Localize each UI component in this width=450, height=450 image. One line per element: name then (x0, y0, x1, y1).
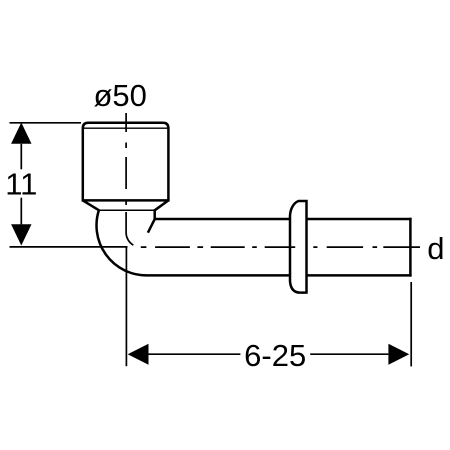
bend right side short vertical (153, 209, 156, 219)
pipe bottom line (left of flange) (146, 274, 290, 277)
pipe top line (right of flange) (307, 218, 412, 221)
bend inner corner diagonal (148, 219, 155, 233)
dimension line 6-25 left segment (149, 353, 241, 355)
horizontal centerline left part (dash-dot) (141, 246, 295, 248)
flange escutcheon profile (290, 200, 307, 294)
horizontal centerline right part (dash-dot) (313, 246, 420, 248)
socket bottom edge (82, 199, 170, 202)
dimension line 6-25 right segment (310, 353, 388, 355)
dimension line 11 upper segment (20, 144, 22, 170)
extension line top (for dim 11) (10, 122, 82, 124)
pipe top line (left of flange) (155, 218, 291, 221)
taper left diagonal (83, 200, 99, 210)
extension line down-left (pipe axis, for dim 6-25) (125, 247, 127, 366)
pipe bottom line (right of flange) (307, 274, 412, 277)
bend centerline solid curve (126, 212, 133, 245)
arrow left (dim 6-25) (128, 344, 149, 365)
extension line bottom (for dim 11, at pipe axis) (10, 246, 128, 248)
socket body outline (top inlet cylinder, rounded top corners) (83, 123, 169, 201)
svg-text:6-25: 6-25 (244, 338, 306, 373)
bend outer arc (97, 210, 147, 276)
svg-text:ø50: ø50 (94, 78, 147, 113)
extension line down-right (pipe end, for dim 6-25) (410, 282, 412, 366)
taper right diagonal (155, 200, 169, 210)
dimension line 11 lower segment (20, 198, 22, 225)
svg-text:11: 11 (5, 167, 37, 202)
svg-text:d: d (427, 231, 444, 266)
vertical centerline (dash-dot) (125, 113, 127, 212)
arrow down (dim 11) (11, 224, 31, 245)
arrow up (dim 11) (11, 123, 31, 144)
pipe end face (409, 218, 412, 277)
arrow right (dim 6-25) (388, 344, 409, 365)
taper bottom edge (thin) (99, 209, 155, 211)
socket end-face chamfer line (thin) (84, 127, 168, 129)
